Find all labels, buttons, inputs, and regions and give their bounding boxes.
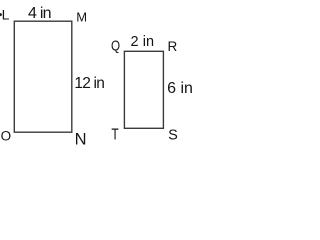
rectangle LMNO (14, 21, 72, 132)
svg-text:2 in: 2 in (131, 34, 155, 50)
rectangle QRST (124, 51, 163, 128)
svg-text:4 in: 4 in (28, 5, 52, 22)
svg-text:6 in: 6 in (167, 80, 193, 97)
svg-text:M: M (76, 9, 87, 24)
svg-text:12 in: 12 in (74, 75, 105, 92)
svg-text:L: L (2, 7, 10, 23)
svg-text:O: O (1, 129, 12, 144)
svg-text:Q: Q (111, 37, 120, 54)
stray dot before L (0, 13, 2, 16)
svg-text:N: N (75, 131, 87, 149)
svg-text:S: S (168, 128, 178, 144)
svg-text:R: R (168, 39, 178, 54)
svg-text:T: T (111, 125, 119, 143)
